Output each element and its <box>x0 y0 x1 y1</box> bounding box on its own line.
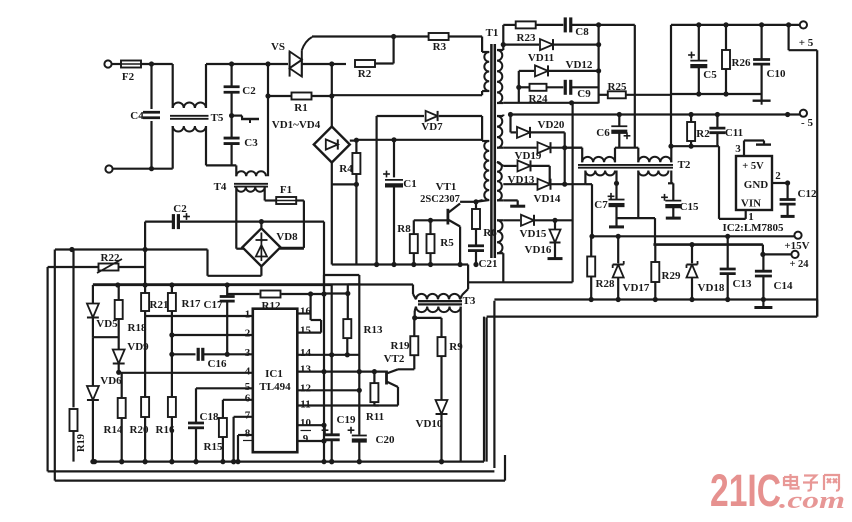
svg-text:IC2:LM7805: IC2:LM7805 <box>722 222 784 234</box>
svg-text:C13: C13 <box>733 278 752 290</box>
svg-text:R28: R28 <box>596 278 615 290</box>
svg-text:F2: F2 <box>122 71 135 83</box>
svg-text:VD9: VD9 <box>127 341 149 353</box>
svg-text:C15: C15 <box>680 201 699 213</box>
svg-text:R20: R20 <box>130 424 149 436</box>
svg-text:C1: C1 <box>403 178 416 190</box>
svg-text:T5: T5 <box>211 112 224 124</box>
svg-text:C11: C11 <box>725 127 743 139</box>
svg-text:VD13: VD13 <box>508 174 535 186</box>
svg-text:R15: R15 <box>204 441 223 453</box>
svg-text:15: 15 <box>300 325 312 337</box>
svg-text:VD1~VD4: VD1~VD4 <box>272 119 321 131</box>
svg-text:R24: R24 <box>529 93 548 105</box>
svg-text:2SC2307: 2SC2307 <box>420 194 460 205</box>
svg-text:C16: C16 <box>208 358 227 370</box>
svg-text:TL494: TL494 <box>259 381 291 393</box>
svg-text:VD18: VD18 <box>698 282 725 294</box>
svg-text:C2: C2 <box>242 85 256 97</box>
svg-text:C14: C14 <box>774 280 793 292</box>
svg-text:C3: C3 <box>244 137 258 149</box>
svg-text:VD15: VD15 <box>520 228 547 240</box>
svg-text:VD12: VD12 <box>566 59 593 71</box>
svg-text:C9: C9 <box>577 88 591 100</box>
svg-text:- 5: - 5 <box>801 117 813 129</box>
svg-text:4: 4 <box>245 366 251 378</box>
svg-text:VD5: VD5 <box>96 318 118 330</box>
svg-text:+ 24: + 24 <box>789 259 809 270</box>
svg-text:2: 2 <box>245 328 251 340</box>
svg-text:C19: C19 <box>337 414 356 426</box>
svg-text:R21: R21 <box>150 299 169 311</box>
svg-text:R18: R18 <box>128 322 147 334</box>
svg-text:VD16: VD16 <box>525 244 552 256</box>
svg-text:R3: R3 <box>433 41 447 53</box>
svg-text:9: 9 <box>303 433 309 445</box>
svg-text:8: 8 <box>245 428 251 440</box>
svg-text:T2: T2 <box>678 159 691 171</box>
svg-text:3: 3 <box>245 347 251 359</box>
svg-text:R6: R6 <box>483 227 497 239</box>
svg-text:R14: R14 <box>104 424 123 436</box>
svg-text:C17: C17 <box>204 299 223 311</box>
svg-text:R11: R11 <box>366 411 384 423</box>
svg-text:6: 6 <box>245 392 251 404</box>
svg-text:VIN: VIN <box>741 198 761 210</box>
svg-text:C20: C20 <box>376 434 395 446</box>
svg-text:R9: R9 <box>449 341 463 353</box>
svg-text:VT2: VT2 <box>384 353 405 365</box>
svg-text:+ 5: + 5 <box>799 37 814 49</box>
svg-text:13: 13 <box>300 364 312 376</box>
svg-text:C7: C7 <box>594 199 608 211</box>
svg-text:R5: R5 <box>440 237 454 249</box>
svg-text:IC1: IC1 <box>265 368 283 380</box>
svg-text:C12: C12 <box>798 188 817 200</box>
svg-text:VD19: VD19 <box>515 150 542 162</box>
svg-text:11: 11 <box>300 398 310 410</box>
svg-text:R17: R17 <box>182 298 201 310</box>
svg-text:VD10: VD10 <box>416 418 443 430</box>
svg-text:R8: R8 <box>397 223 411 235</box>
svg-text:3: 3 <box>735 143 741 155</box>
svg-text:GND: GND <box>744 179 769 191</box>
svg-text:16: 16 <box>300 306 312 318</box>
svg-text:VD11: VD11 <box>528 52 554 64</box>
svg-text:R2: R2 <box>696 128 710 140</box>
svg-text:T1: T1 <box>486 27 499 39</box>
svg-text:C6: C6 <box>596 127 610 139</box>
svg-text:R26: R26 <box>732 57 751 69</box>
svg-text:T4: T4 <box>214 181 227 193</box>
svg-text:R25: R25 <box>608 81 627 93</box>
svg-text:2: 2 <box>775 170 781 182</box>
svg-text:R13: R13 <box>364 324 383 336</box>
svg-text:R22: R22 <box>101 252 120 264</box>
svg-text:C5: C5 <box>703 69 717 81</box>
svg-text:C4: C4 <box>130 110 144 122</box>
svg-text:C18: C18 <box>200 411 219 423</box>
svg-text:14: 14 <box>300 347 312 359</box>
svg-text:VD17: VD17 <box>623 282 650 294</box>
svg-text:21IC: 21IC <box>710 465 781 516</box>
svg-text:R19: R19 <box>391 340 410 352</box>
svg-text:7: 7 <box>245 409 251 421</box>
svg-text:10: 10 <box>300 417 312 429</box>
svg-text:R19: R19 <box>76 434 87 452</box>
svg-text:+15V: +15V <box>784 240 809 252</box>
svg-text:R12: R12 <box>262 300 281 312</box>
svg-text:VT1: VT1 <box>436 181 457 193</box>
svg-text:R4: R4 <box>339 163 353 175</box>
svg-text:+ 5V: + 5V <box>742 161 764 172</box>
svg-text:R29: R29 <box>662 270 681 282</box>
svg-text:C21: C21 <box>479 258 498 270</box>
svg-text:T3: T3 <box>463 295 476 307</box>
svg-text:C10: C10 <box>767 68 786 80</box>
svg-text:C2: C2 <box>173 203 187 215</box>
svg-text:F1: F1 <box>280 184 292 196</box>
svg-text:R2: R2 <box>358 68 372 80</box>
svg-text:VD14: VD14 <box>534 193 561 205</box>
svg-text:12: 12 <box>300 382 312 394</box>
svg-text:VD8: VD8 <box>276 231 298 243</box>
svg-text:1: 1 <box>245 309 251 321</box>
svg-text:VS: VS <box>271 41 285 53</box>
svg-text:R16: R16 <box>156 424 175 436</box>
svg-text:VD7: VD7 <box>421 121 443 133</box>
svg-text:R1: R1 <box>294 102 307 114</box>
svg-text:C8: C8 <box>575 26 589 38</box>
svg-text:R23: R23 <box>517 32 536 44</box>
svg-text:.com: .com <box>779 488 845 514</box>
svg-text:VD6: VD6 <box>100 375 122 387</box>
svg-text:5: 5 <box>245 381 251 393</box>
svg-text:VD20: VD20 <box>538 119 565 131</box>
